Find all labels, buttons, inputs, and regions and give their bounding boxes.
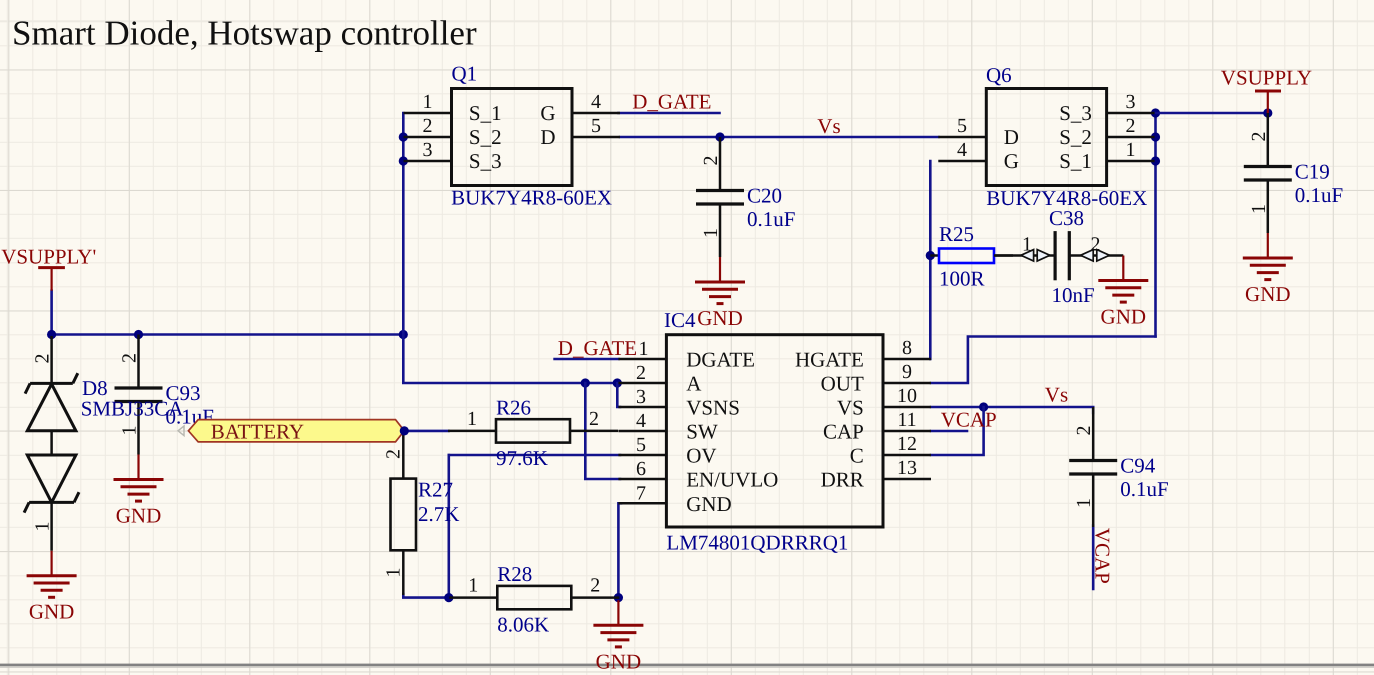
svg-text:12: 12 [897, 433, 917, 455]
op-amp U-block IC4 LM74801QDRRRQ1 [618, 308, 931, 555]
wire VS to C94 [931, 407, 1093, 413]
wire VCAP stub [931, 430, 967, 433]
svg-text:GND: GND [596, 649, 642, 673]
svg-text:SMBJ33CA: SMBJ33CA [81, 397, 185, 421]
capacitor C19 [1244, 113, 1343, 233]
ground GND under C20 [695, 257, 745, 330]
svg-text:2: 2 [1073, 426, 1095, 436]
ground GND under C19 [1243, 233, 1293, 306]
node Q1 source rail corner [399, 330, 408, 339]
svg-text:Vs: Vs [1045, 383, 1068, 407]
svg-text:0.1uF: 0.1uF [747, 207, 795, 231]
svg-text:5: 5 [636, 434, 646, 456]
node BATTERY/R27 [400, 426, 409, 435]
transistor Q6 [938, 63, 1154, 210]
svg-text:1: 1 [1126, 139, 1136, 161]
svg-text:4: 4 [636, 410, 646, 432]
svg-text:GND: GND [697, 306, 743, 330]
svg-text:1: 1 [383, 568, 405, 578]
svg-text:OV: OV [686, 444, 716, 468]
svg-text:S_1: S_1 [469, 101, 502, 125]
wire net D_GATE1 stub [555, 358, 619, 361]
svg-text:1: 1 [639, 338, 649, 360]
svg-text:C20: C20 [747, 184, 782, 208]
svg-text:3: 3 [1126, 91, 1136, 113]
wire BATTERY to R26 [404, 430, 448, 433]
ground GND under R28 [593, 600, 643, 673]
ground GND under C93 [114, 455, 164, 528]
node Q1 pin2 [399, 132, 408, 141]
svg-text:VSUPPLY: VSUPPLY [1221, 66, 1312, 90]
svg-text:9: 9 [902, 361, 912, 383]
svg-text:OUT: OUT [821, 372, 864, 396]
svg-text:1: 1 [1248, 204, 1270, 214]
svg-text:1: 1 [468, 575, 478, 597]
svg-text:LM74801QDRRRQ1: LM74801QDRRRQ1 [666, 531, 848, 555]
svg-text:VS: VS [837, 396, 864, 420]
ground GND under C38 [1098, 256, 1148, 329]
svg-text:C: C [850, 444, 864, 468]
svg-text:S_2: S_2 [469, 125, 502, 149]
svg-text:VCAP: VCAP [941, 408, 997, 432]
svg-text:2: 2 [589, 408, 599, 430]
wire net A to IC4 [403, 335, 620, 384]
svg-text:Smart Diode, Hotswap controlle: Smart Diode, Hotswap controller [12, 14, 477, 53]
svg-text:Q1: Q1 [452, 62, 478, 86]
svg-text:S_2: S_2 [1059, 125, 1092, 149]
svg-text:5: 5 [957, 115, 967, 137]
svg-text:10: 10 [897, 385, 917, 407]
svg-text:CAP: CAP [823, 420, 864, 444]
wire net Vs (Q1 drain to Q6 drain) [620, 136, 938, 139]
svg-text:S_1: S_1 [1059, 149, 1092, 173]
svg-text:D: D [540, 125, 555, 149]
svg-text:C38: C38 [1049, 206, 1084, 230]
wire HGATE riser to Q6 gate [929, 161, 932, 359]
svg-text:DGATE: DGATE [686, 348, 755, 372]
wire R27 bottom elbow [403, 594, 449, 598]
svg-text:2: 2 [1126, 115, 1136, 137]
svg-text:1: 1 [423, 91, 433, 113]
node R28 pin2 / GND [614, 593, 623, 602]
svg-text:R25: R25 [939, 222, 974, 246]
svg-text:2: 2 [423, 115, 433, 137]
svg-text:1: 1 [1022, 234, 1032, 256]
capacitor C94 [1069, 407, 1168, 527]
resistor R25 (highlighted) [930, 222, 1013, 291]
svg-text:GND: GND [1101, 305, 1147, 329]
wire Q1 source bus vertical [402, 113, 405, 335]
node Q1 pin3 [399, 156, 408, 165]
svg-text:13: 13 [897, 457, 917, 479]
svg-text:SW: SW [686, 420, 718, 444]
svg-text:HGATE: HGATE [795, 348, 864, 372]
wire EN/UVLO drop [585, 383, 620, 479]
svg-text:2.7K: 2.7K [418, 502, 459, 526]
svg-text:1: 1 [119, 426, 141, 436]
svg-text:Vs: Vs [817, 114, 840, 138]
resistor R28 [449, 562, 619, 637]
svg-text:0.1uF: 0.1uF [1120, 477, 1168, 501]
node R27/R28 [444, 593, 453, 602]
svg-text:97.6K: 97.6K [496, 446, 548, 470]
power port VSUPPLY [1221, 66, 1312, 114]
svg-text:G: G [1004, 149, 1019, 173]
svg-text:S_3: S_3 [1059, 101, 1092, 125]
node A/VSNS branch [613, 378, 622, 387]
svg-text:2: 2 [1091, 234, 1101, 256]
svg-text:D: D [1004, 125, 1019, 149]
svg-text:C94: C94 [1120, 454, 1156, 478]
svg-text:1: 1 [32, 522, 54, 532]
net label D_GATE1 with pin 1 [558, 336, 649, 360]
svg-text:VSNS: VSNS [686, 396, 740, 420]
svg-text:2: 2 [119, 353, 141, 363]
svg-text:A: A [686, 372, 702, 396]
node C20 tap [715, 132, 724, 141]
svg-text:D_GATE: D_GATE [558, 336, 637, 360]
svg-text:2: 2 [1248, 132, 1270, 142]
svg-text:C19: C19 [1295, 160, 1330, 184]
svg-text:11: 11 [897, 409, 916, 431]
svg-text:6: 6 [636, 458, 646, 480]
svg-text:4: 4 [957, 139, 967, 161]
svg-text:100R: 100R [939, 267, 985, 291]
svg-text:R28: R28 [497, 562, 532, 586]
svg-text:7: 7 [636, 482, 646, 504]
svg-text:S_3: S_3 [469, 149, 502, 173]
svg-text:3: 3 [636, 386, 646, 408]
svg-text:8.06K: 8.06K [497, 613, 549, 637]
svg-text:EN/UVLO: EN/UVLO [686, 468, 778, 492]
node A/EN branch [581, 378, 590, 387]
svg-text:R27: R27 [418, 478, 453, 502]
capacitor C93 [115, 335, 214, 455]
svg-text:1: 1 [700, 228, 722, 238]
svg-text:GND: GND [29, 600, 75, 624]
svg-text:2: 2 [590, 575, 600, 597]
port BATTERY [188, 420, 404, 444]
node Q6 pin2 [1151, 132, 1160, 141]
svg-text:GND: GND [686, 492, 732, 516]
node Q6 pin3 [1151, 108, 1160, 117]
resistor R27 [383, 433, 460, 595]
wire Q6 sources to VSUPPLY [1156, 112, 1268, 115]
capacitor C38 [994, 206, 1123, 307]
svg-text:D_GATE: D_GATE [632, 90, 711, 114]
wire VSNS drop [617, 383, 620, 407]
svg-text:5: 5 [591, 115, 601, 137]
svg-text:DRR: DRR [821, 468, 864, 492]
wire C pin loop [931, 407, 984, 455]
transistor Q1 [404, 62, 621, 210]
svg-text:3: 3 [423, 139, 433, 161]
wire IC4 GND pin to R28 [618, 503, 621, 597]
svg-text:0.1uF: 0.1uF [1295, 183, 1343, 207]
svg-text:Q6: Q6 [986, 63, 1012, 87]
node VSUPPLY/C19 [1263, 108, 1272, 117]
power port VSUPPLY-prime [1, 245, 96, 291]
node R25 pin1 [926, 251, 935, 260]
ground GND under D8 [27, 551, 77, 624]
wire VSUPPLY-prime rail [50, 291, 53, 335]
svg-text:1: 1 [1073, 498, 1095, 508]
sheet border bottom [0, 664, 1374, 668]
svg-text:4: 4 [591, 91, 601, 113]
diode D8 SMBJ33CA [24, 336, 184, 551]
wire net OV 97.6K [449, 454, 620, 457]
wire net D_GATE stub [619, 112, 720, 115]
capacitor C20 [696, 137, 795, 257]
svg-text:BUK7Y4R8-60EX: BUK7Y4R8-60EX [451, 186, 612, 210]
svg-text:R26: R26 [496, 395, 531, 419]
wire OUT loop to Q6 sources [931, 337, 1156, 384]
svg-text:GND: GND [1245, 282, 1291, 306]
svg-text:VCAP: VCAP [1091, 528, 1115, 584]
wire C94 to VCAP label [1092, 526, 1095, 589]
node VSUPPLY-prime/D8 [47, 330, 56, 339]
svg-text:G: G [540, 101, 555, 125]
node VS/C branch [979, 402, 988, 411]
resistor R26 [448, 395, 618, 470]
svg-text:BATTERY: BATTERY [211, 420, 304, 444]
svg-text:10nF: 10nF [1052, 283, 1095, 307]
svg-text:IC4: IC4 [664, 308, 696, 332]
svg-text:2: 2 [383, 449, 405, 459]
node C93 tap [134, 330, 143, 339]
svg-text:1: 1 [467, 408, 477, 430]
svg-text:GND: GND [116, 504, 162, 528]
svg-text:2: 2 [32, 354, 54, 364]
svg-text:2: 2 [700, 156, 722, 166]
svg-text:2: 2 [636, 362, 646, 384]
svg-text:VSUPPLY': VSUPPLY' [1, 245, 96, 269]
node Q6 pin1 [1151, 156, 1160, 165]
svg-text:8: 8 [902, 337, 912, 359]
